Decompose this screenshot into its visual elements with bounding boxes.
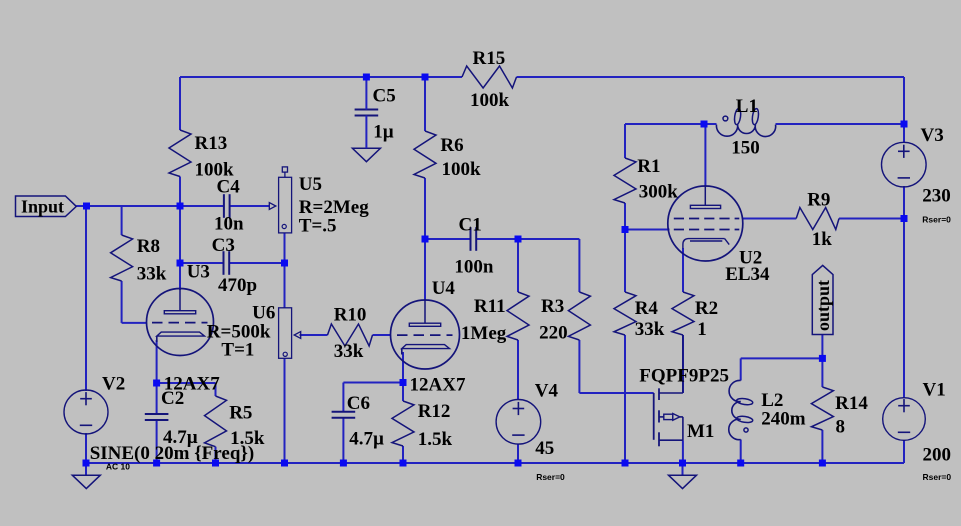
svg-text:AC 10: AC 10 [106,462,130,472]
svg-text:output: output [813,280,833,331]
svg-text:100n: 100n [454,257,494,278]
svg-text:470p: 470p [218,275,257,296]
svg-text:C6: C6 [347,393,370,414]
svg-text:L1: L1 [736,96,758,117]
svg-text:U3: U3 [187,262,210,283]
svg-text:R12: R12 [418,401,451,422]
svg-text:R10: R10 [334,305,367,326]
svg-text:FQPF9P25: FQPF9P25 [639,366,729,387]
svg-text:33k: 33k [334,341,364,362]
svg-text:U5: U5 [299,174,322,195]
svg-text:R15: R15 [473,48,506,69]
svg-text:V3: V3 [921,125,944,146]
svg-text:10n: 10n [214,214,244,235]
svg-text:R8: R8 [137,236,160,257]
svg-text:U6: U6 [252,303,275,324]
svg-text:100k: 100k [442,159,482,180]
svg-text:R11: R11 [474,296,506,317]
svg-text:V2: V2 [102,374,125,395]
svg-text:R3: R3 [541,296,564,317]
svg-text:R14: R14 [835,393,868,414]
svg-text:4.7µ: 4.7µ [349,429,384,450]
svg-text:C4: C4 [217,177,241,198]
svg-text:200: 200 [923,445,952,466]
svg-text:U4: U4 [432,278,456,299]
svg-text:220: 220 [539,323,568,344]
svg-text:R5: R5 [229,403,252,424]
svg-text:V1: V1 [923,380,946,401]
svg-text:240m: 240m [761,409,806,430]
svg-text:1µ: 1µ [373,122,394,143]
svg-text:Rser=0: Rser=0 [922,215,951,225]
svg-text:R13: R13 [195,133,228,154]
svg-text:C1: C1 [459,215,482,236]
svg-text:T=.5: T=.5 [299,216,337,237]
svg-text:45: 45 [535,438,554,459]
svg-text:R2: R2 [695,298,718,319]
svg-text:12AX7: 12AX7 [410,375,466,396]
svg-text:1: 1 [697,319,707,340]
svg-text:230: 230 [922,186,951,207]
svg-text:1Meg: 1Meg [461,323,507,344]
svg-text:33k: 33k [635,319,665,340]
svg-text:R1: R1 [637,156,660,177]
svg-text:C3: C3 [212,235,235,256]
svg-text:1.5k: 1.5k [418,429,453,450]
svg-text:R6: R6 [440,135,463,156]
svg-text:R9: R9 [807,190,830,211]
svg-text:C2: C2 [161,388,184,409]
svg-text:33k: 33k [137,264,167,285]
svg-text:150: 150 [731,138,760,159]
svg-text:V4: V4 [535,381,559,402]
svg-text:8: 8 [836,417,846,438]
svg-text:300k: 300k [639,182,679,203]
svg-text:M1: M1 [687,421,714,442]
svg-text:R4: R4 [635,298,659,319]
svg-text:C5: C5 [373,86,396,107]
svg-text:1k: 1k [812,229,833,250]
svg-text:Rser=0: Rser=0 [923,472,952,482]
svg-text:100k: 100k [470,90,510,111]
svg-text:Input: Input [21,197,64,217]
svg-text:Rser=0: Rser=0 [536,472,565,482]
svg-text:EL34: EL34 [725,264,770,285]
svg-text:T=1: T=1 [221,340,254,361]
